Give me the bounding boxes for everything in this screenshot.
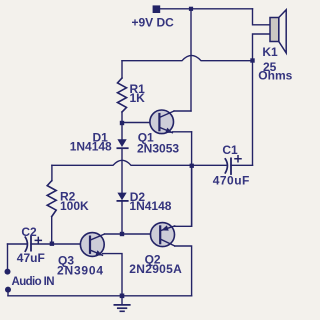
wire Q1 collector to +9V line — [174, 110, 191, 112]
svg-text:Audio IN: Audio IN — [12, 276, 55, 288]
svg-text:100K: 100K — [60, 199, 89, 213]
wire ground rail — [8, 295, 192, 297]
wire +9V rail — [160, 8, 253, 10]
svg-text:Ohms: Ohms — [258, 69, 292, 83]
capacitor C2 47uF — [8, 236, 42, 251]
wire R2 top lead — [51, 165, 53, 180]
svg-text:1N4148: 1N4148 — [70, 139, 112, 153]
wire R1 top lead — [121, 61, 123, 78]
resistor R2 — [47, 181, 56, 217]
wire output rail R2-top to C1 with hop over diode line — [52, 160, 192, 165]
wire Q2 emitter to output node — [175, 165, 192, 226]
capacitor C1 470uF — [192, 156, 253, 174]
svg-text:1N4148: 1N4148 — [129, 199, 171, 213]
node D2/Q3-collector/Q2-base junction — [120, 232, 124, 236]
wire Q3 emitter to ground — [103, 254, 123, 296]
transistor Q3 2N3904 — [80, 233, 104, 257]
ground — [114, 294, 129, 312]
wire D2 cathode down to Q3/Q2 junction — [121, 201, 123, 234]
node output junction at C1 — [190, 164, 194, 168]
wire R1 bottom to D1 — [121, 112, 123, 140]
svg-text:47uF: 47uF — [17, 251, 45, 265]
wire Q1 emitter to output — [172, 131, 191, 133]
node R1/D1/Q1-base junction — [120, 121, 124, 125]
transistor Q1 2N3053 — [150, 110, 174, 134]
svg-text:470uF: 470uF — [213, 174, 250, 188]
svg-text:C2: C2 — [21, 225, 37, 239]
diode D2 1N4148 — [117, 193, 127, 201]
node Audio IN top terminal — [5, 269, 11, 275]
svg-text:2N3053: 2N3053 — [137, 141, 179, 155]
diode D1 1N4148 — [117, 139, 127, 148]
wire Q3 collector to D2/Q2 base — [105, 233, 161, 235]
node +9V junction — [189, 7, 193, 11]
wire C2 to Q3 base — [31, 243, 90, 245]
wire Q1 base — [122, 122, 159, 124]
svg-text:1K: 1K — [130, 91, 146, 105]
wire speaker bottom lead — [253, 34, 271, 61]
wire right rail down to C1 — [252, 61, 254, 166]
wire R2 bottom lead — [51, 217, 53, 244]
wire output vertical Q1 emitter to Q2 emitter — [191, 132, 193, 227]
+9V terminal square — [153, 5, 161, 13]
wire +9V down to Q1 collector — [190, 9, 192, 111]
wire R1 top rail with hop over +9V line — [122, 55, 253, 60]
resistor R1 — [118, 78, 127, 112]
svg-text:2N2905A: 2N2905A — [129, 262, 182, 276]
speaker K1 — [270, 10, 286, 53]
node R2/C2/Q3-base junction — [50, 242, 54, 246]
node Audio IN bottom terminal — [5, 287, 11, 293]
svg-text:C1: C1 — [222, 143, 238, 157]
svg-text:+9V DC: +9V DC — [132, 16, 175, 30]
node speaker/R1/C1 junction — [250, 58, 254, 62]
wire audio-in bottom stub — [7, 290, 9, 296]
wire Q2 collector to ground rail — [175, 246, 192, 296]
transistor Q2 2N2905A — [151, 223, 175, 247]
svg-text:2N3904: 2N3904 — [57, 264, 104, 278]
wire speaker top lead — [253, 9, 271, 25]
wire D1 cathode to D2 anode (under hop) — [121, 148, 123, 193]
svg-text:K1: K1 — [262, 45, 278, 59]
wire audio-in top lead — [7, 244, 9, 272]
